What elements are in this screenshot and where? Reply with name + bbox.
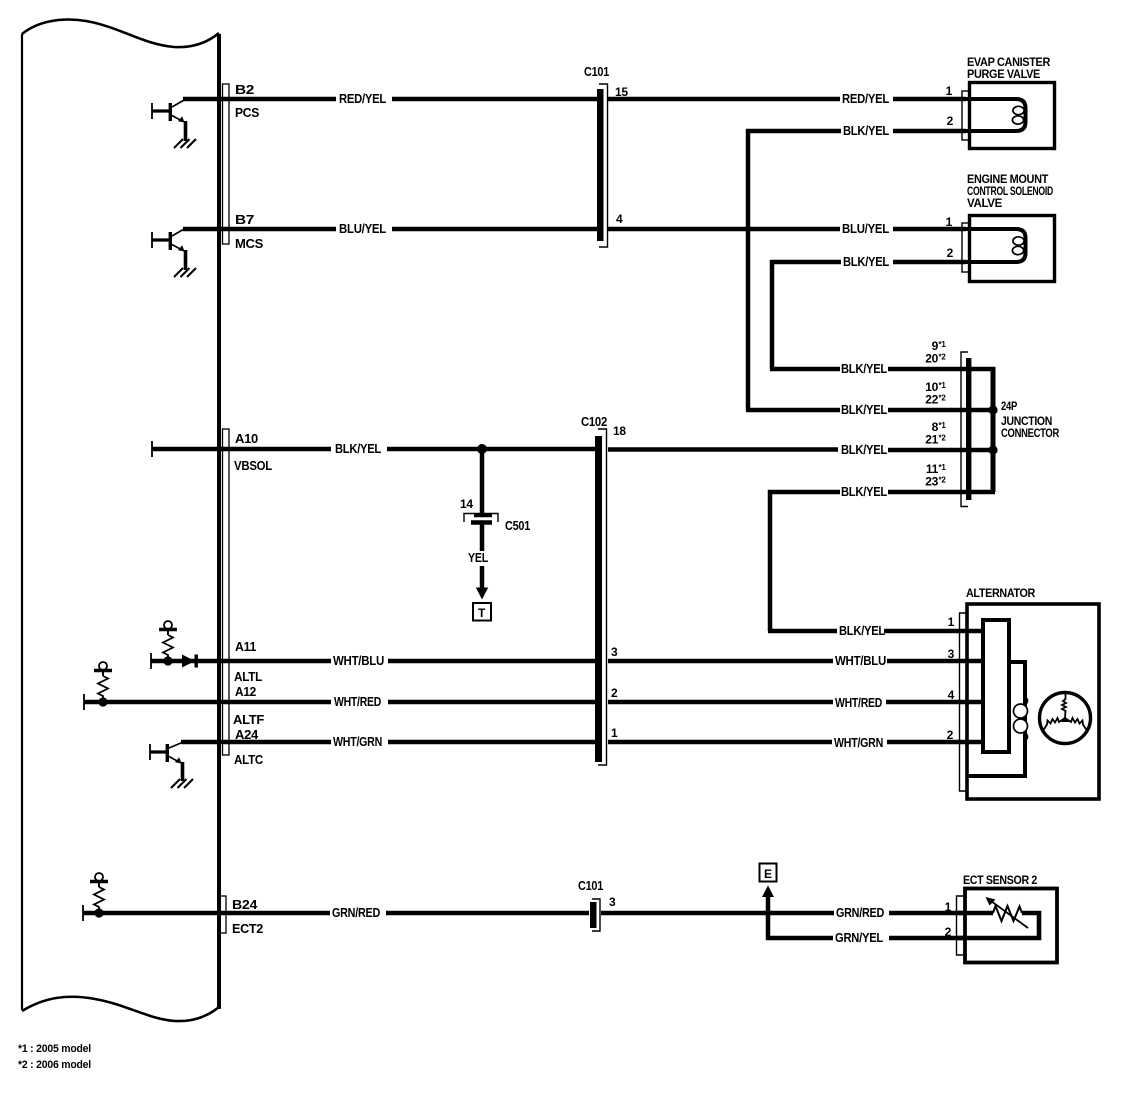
svg-text:C501: C501 [505,518,530,533]
ground point box T [473,603,491,621]
svg-text:B2: B2 [235,82,254,97]
svg-text:22: 22 [925,393,938,407]
alternator internal wiring path [968,662,1025,776]
svg-text:GRN/RED: GRN/RED [332,905,380,920]
alternator internal regulator block [983,620,1009,752]
wire end tick B24 [82,905,84,921]
EVAP valve box [970,83,1055,149]
svg-text:RED/YEL: RED/YEL [339,91,386,106]
EVAP valve connector bracket [962,91,969,140]
svg-text:WHT/GRN: WHT/GRN [333,734,382,749]
svg-text:C101: C101 [584,64,609,79]
solenoid coil engine mount [963,229,1026,262]
svg-text:BLK/YEL: BLK/YEL [841,442,887,457]
thermistor internal wiring [957,906,1039,938]
bus bar of 24P junction [991,367,996,492]
svg-text:BLU/YEL: BLU/YEL [339,221,386,236]
svg-text:BLK/YEL: BLK/YEL [843,254,889,269]
connector bracket pin B24 [220,896,227,933]
svg-text:2: 2 [611,686,618,700]
svg-text:15: 15 [615,85,628,99]
svg-text:1: 1 [946,215,953,229]
ECM/PCM torn-edge box outline [22,20,219,1022]
svg-text:BLK/YEL: BLK/YEL [841,402,887,417]
svg-text:2: 2 [947,114,954,128]
pull-up resistor + power source at pin A12 [94,662,112,707]
wire to T ground arrow [480,566,485,589]
svg-text:*2: *2 [939,394,947,403]
svg-text:ALTL: ALTL [234,669,262,684]
wire alternator pin1 BLK/YEL [768,629,985,634]
alternator connector bracket [960,613,968,791]
wire end tick A10 [151,441,153,457]
connector C102 [595,429,607,765]
svg-text:1: 1 [948,615,955,629]
label 24P JUNCTION CONNECTOR [1001,401,1060,440]
wire vertical EVAP pin2 to 24P pin10/22 [746,129,751,410]
connector 24P junction: body bar [966,358,971,500]
svg-text:*2: *2 [939,434,947,443]
svg-text:WHT/RED: WHT/RED [334,694,381,709]
svg-text:A12: A12 [235,684,256,699]
junction node on A10 wire to C501 [477,444,487,454]
transistor Q3 (ALTC driver, NPN) [150,743,183,782]
svg-text:*1: *1 [939,463,947,472]
engine mount valve box [970,216,1055,282]
svg-text:C102: C102 [581,414,607,429]
svg-text:B7: B7 [235,212,254,227]
wire vertical ENG pin2 to 24P pin9/20 [770,260,775,369]
svg-text:BLK/YEL: BLK/YEL [843,123,889,138]
wire vertical A10 junction down to C501 [480,449,485,517]
svg-text:ENGINE MOUNT: ENGINE MOUNT [967,174,1048,186]
svg-text:YEL: YEL [468,550,488,565]
solenoid coil EVAP [963,99,1026,131]
connector 24P junction: bracket [961,352,968,507]
pin labels 11*1/23*2 [925,462,946,489]
svg-text:*2: *2 [939,353,947,362]
svg-text:T: T [478,606,486,620]
svg-text:GRN/RED: GRN/RED [836,905,884,920]
svg-text:WHT/BLU: WHT/BLU [333,653,384,668]
svg-text:E: E [764,867,772,881]
svg-text:CONTROL SOLENOID: CONTROL SOLENOID [967,186,1053,198]
junction node 24P pin8/21 [988,445,997,454]
svg-text:1: 1 [611,726,618,740]
svg-text:EVAP CANISTER: EVAP CANISTER [967,57,1051,69]
svg-text:2: 2 [945,925,952,939]
svg-text:24P: 24P [1001,401,1018,413]
transistor Q1 (PCS driver, NPN) [152,100,186,142]
svg-text:VBSOL: VBSOL [234,458,272,473]
pin labels 10*1/22*2 [925,380,946,407]
ground (Q1 emitter) [174,139,196,148]
wire B7 BLU/YEL row [183,227,966,232]
svg-text:2: 2 [947,728,954,742]
svg-text:WHT/BLU: WHT/BLU [835,653,886,668]
svg-text:3: 3 [611,645,618,659]
ground (Q3 emitter) [171,779,193,788]
wire B24 GRN/RED row [83,911,966,916]
svg-text:BLK/YEL: BLK/YEL [335,441,381,456]
ground (Q2 emitter) [174,268,196,277]
svg-text:ALTC: ALTC [234,752,264,767]
wire A10 VBSOL BLK/YEL row [152,449,995,450]
svg-text:JUNCTION: JUNCTION [1001,416,1052,428]
svg-text:A24: A24 [235,727,259,742]
wire end tick A12 [83,694,85,710]
svg-text:ECT2: ECT2 [232,921,263,936]
svg-text:A10: A10 [235,431,258,446]
svg-text:C101: C101 [578,878,603,893]
ECT sensor connector bracket [957,896,964,955]
svg-text:BLU/YEL: BLU/YEL [842,221,889,236]
wire 24P pin10/22 BLK/YEL [746,408,995,413]
pin labels 8*1/21*2 [925,420,946,447]
wire B2 RED/YEL row [183,97,966,102]
svg-text:*1: *1 [939,340,947,349]
ground point box E [760,864,777,882]
wire ENG MOUNT pin2 BLK/YEL [770,260,966,265]
svg-text:2: 2 [947,246,954,260]
svg-text:4: 4 [948,688,955,702]
svg-text:*1: *1 [939,381,947,390]
svg-text:ALTERNATOR: ALTERNATOR [966,588,1036,600]
svg-text:PCS: PCS [235,105,260,120]
pull-up resistor + power source at pin B24 [90,873,108,918]
svg-text:20: 20 [925,352,938,366]
junction node 24P pin10/22 [988,405,997,414]
svg-text:ECT SENSOR 2: ECT SENSOR 2 [963,875,1037,887]
alternator box [967,604,1099,799]
svg-text:VALVE: VALVE [967,198,1003,210]
svg-text:A11: A11 [235,639,256,654]
pin labels 9*1/20*2 [925,339,946,366]
wire vertical ground E to GRN/YEL [766,893,771,940]
svg-text:ALTF: ALTF [233,712,264,727]
connector C101 (bottom) [590,899,600,931]
connector C501 [464,514,498,523]
wire ECT pin2 GRN/YEL [766,936,966,941]
svg-text:23: 23 [925,475,938,489]
svg-text:3: 3 [948,647,955,661]
svg-text:3: 3 [609,895,616,909]
svg-text:*1: *1 [939,421,947,430]
connector bracket pins A10-A24 [223,429,230,755]
label EVAP CANISTER PURGE VALVE [967,57,1051,81]
svg-text:*1 : 2005 model: *1 : 2005 model [18,1043,91,1055]
wire A24 WHT/GRN row [181,740,985,745]
svg-text:RED/YEL: RED/YEL [842,91,889,106]
label ENGINE MOUNT CONTROL SOLENOID VALVE [967,174,1053,210]
connector bracket pins B2-B7 [223,84,230,244]
svg-text:BLK/YEL: BLK/YEL [841,361,887,376]
wire YEL below C501 [480,524,485,551]
pull-up resistor + power source at pin A11 [159,621,177,666]
svg-text:BLK/YEL: BLK/YEL [839,623,885,638]
svg-text:*2: *2 [939,476,947,485]
wire 24P pin11/23 BLK/YEL [768,490,995,495]
svg-text:BLK/YEL: BLK/YEL [841,484,887,499]
svg-text:18: 18 [613,424,626,438]
svg-text:PURGE VALVE: PURGE VALVE [967,69,1041,81]
diode D1 on A11 line [182,655,198,668]
stator circle (3-phase windings) [1040,693,1091,744]
svg-text:21: 21 [925,433,938,447]
connector C101 (top) [597,84,608,247]
svg-text:14: 14 [460,497,473,511]
wire A12 WHT/RED row [84,700,985,705]
svg-text:GRN/YEL: GRN/YEL [835,930,883,945]
wire vertical 24P pin11/23 to alternator pin1 [768,490,773,631]
wire A11 WHT/BLU row [151,659,985,664]
wire EVAP pin2 BLK/YEL [746,129,966,134]
engine mount valve connector bracket [962,223,969,272]
wire end tick A11 [150,653,152,669]
svg-text:4: 4 [616,212,623,226]
svg-text:*2 : 2006 model: *2 : 2006 model [18,1059,91,1071]
arrowhead to T [476,588,488,600]
svg-text:WHT/GRN: WHT/GRN [834,735,883,750]
svg-text:WHT/RED: WHT/RED [835,695,882,710]
thermistor arrow [986,897,1029,928]
svg-text:1: 1 [945,900,952,914]
field coil on alternator path [1014,697,1028,741]
wire 24P pin9/20 BLK/YEL [770,367,995,372]
transistor Q2 (MCS driver, NPN) [152,229,186,271]
svg-text:CONNECTOR: CONNECTOR [1001,428,1060,440]
svg-text:1: 1 [946,84,953,98]
arrowhead to E [762,886,774,898]
ECT sensor box [965,889,1057,963]
svg-text:B24: B24 [232,897,258,912]
svg-text:MCS: MCS [235,236,264,251]
